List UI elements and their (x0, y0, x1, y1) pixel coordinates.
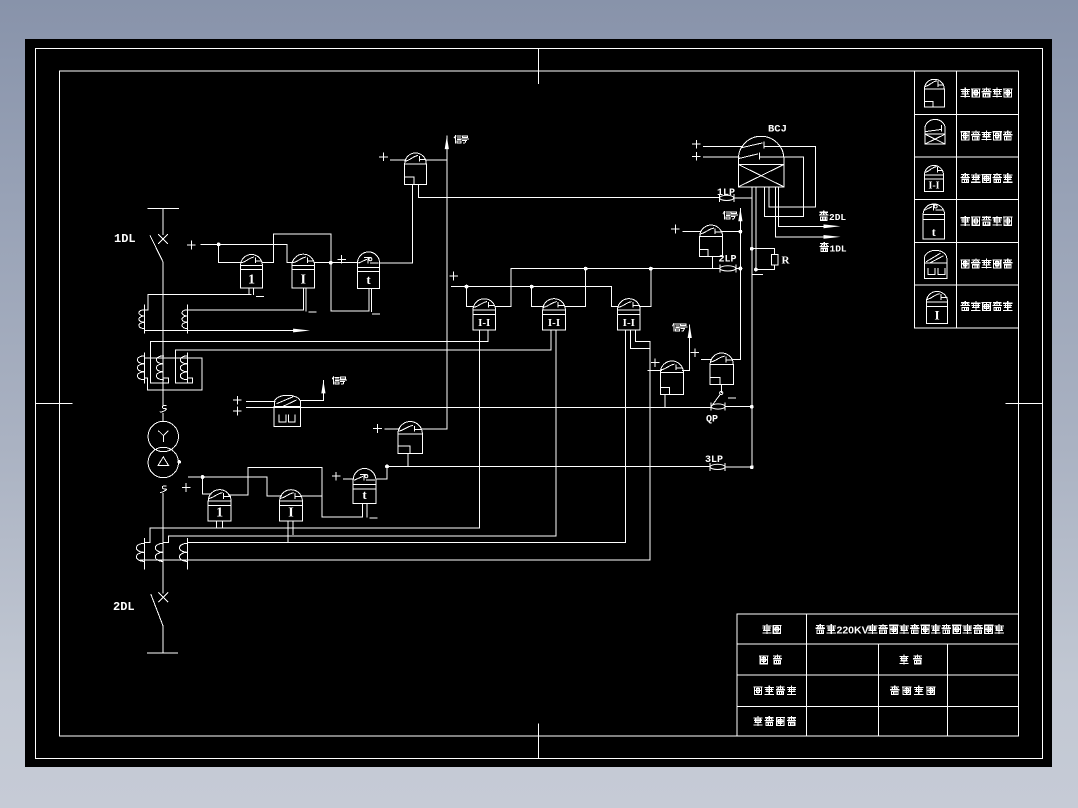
svg-text:1LP: 1LP (717, 188, 735, 199)
svg-text:220KV: 220KV (837, 624, 869, 636)
svg-text:t: t (932, 225, 936, 239)
svg-text:QP: QP (706, 415, 718, 426)
svg-text:2DL: 2DL (113, 600, 135, 614)
svg-text:I: I (288, 506, 293, 521)
svg-text:t: t (362, 487, 367, 502)
svg-text:I: I (934, 308, 939, 323)
svg-text:I-I: I-I (478, 317, 490, 329)
svg-text:2LP: 2LP (719, 255, 737, 266)
svg-text:I-I: I-I (928, 180, 939, 191)
svg-text:I-I: I-I (623, 317, 635, 329)
svg-text:t: t (366, 272, 371, 287)
svg-text:1DL: 1DL (830, 243, 847, 254)
svg-text:I: I (301, 272, 306, 287)
svg-text:BCJ: BCJ (768, 124, 787, 136)
svg-text:1DL: 1DL (114, 232, 136, 246)
svg-text:R: R (782, 255, 791, 267)
svg-text:1: 1 (216, 506, 223, 521)
svg-text:2DL: 2DL (829, 212, 846, 223)
svg-text:1: 1 (248, 272, 255, 287)
svg-text:I-I: I-I (548, 317, 560, 329)
svg-text:3LP: 3LP (705, 455, 723, 466)
